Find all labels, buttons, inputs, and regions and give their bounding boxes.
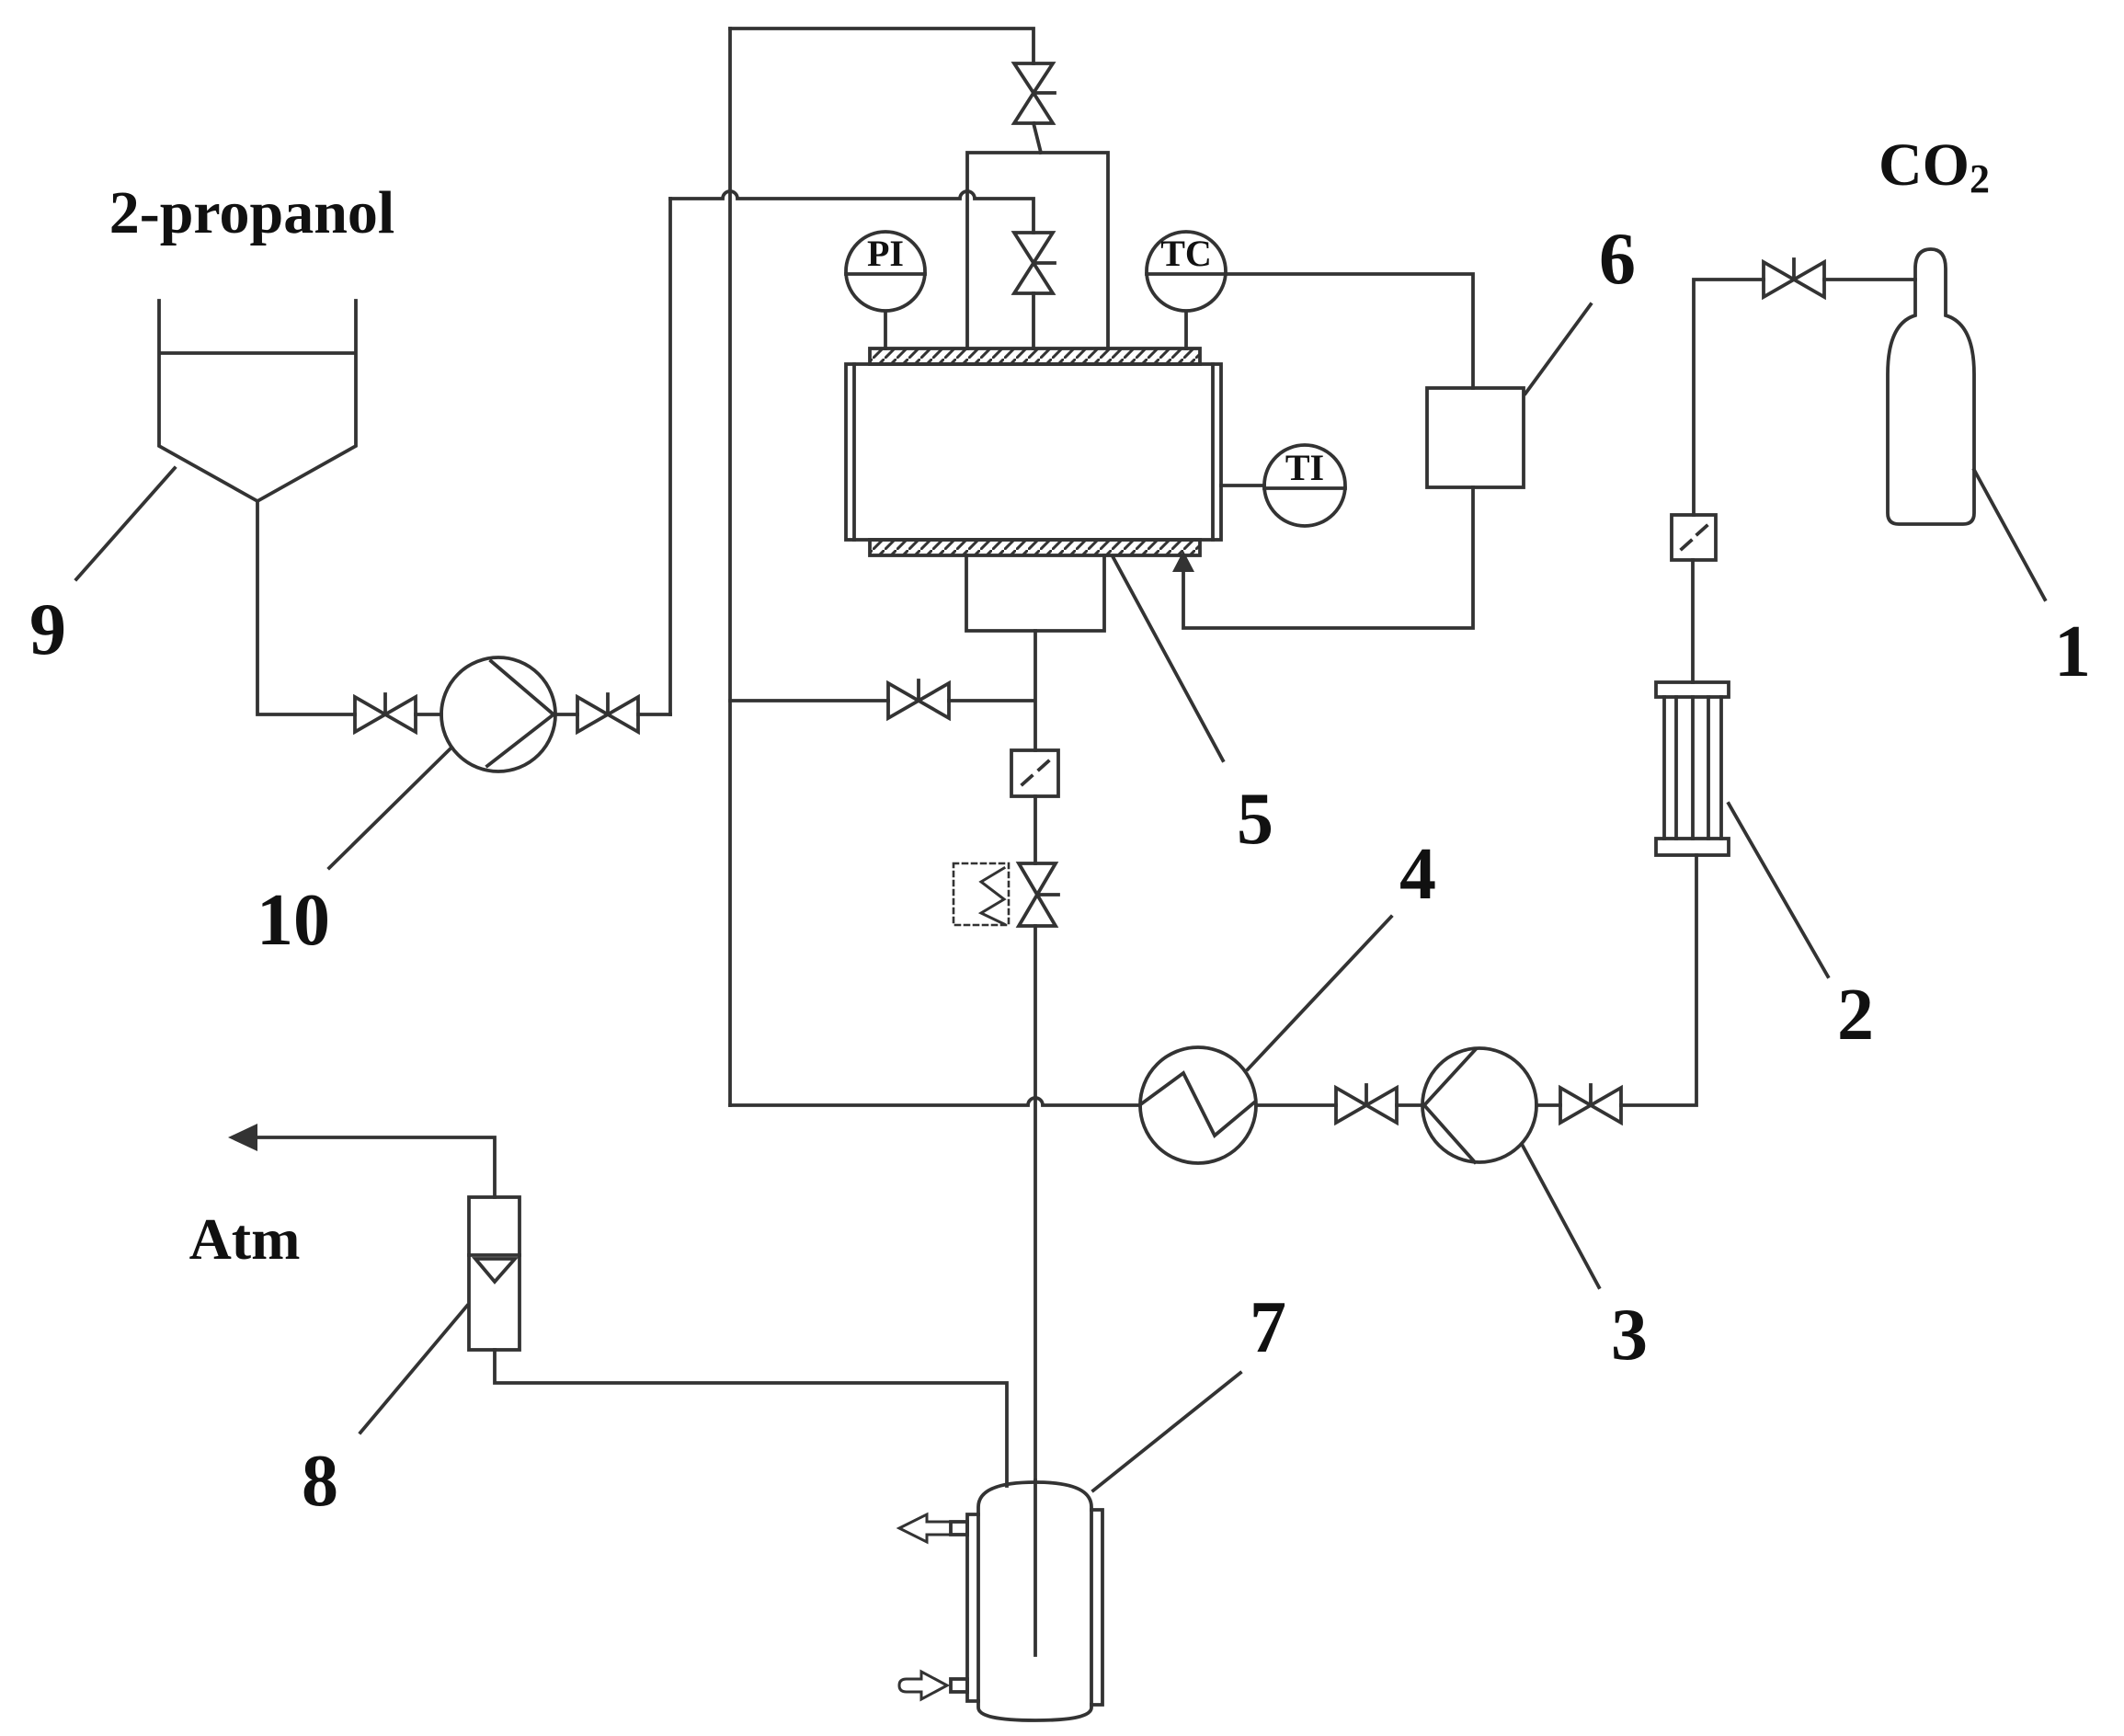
arrowhead into vessel bottom xyxy=(1172,551,1194,572)
heat exchanger 2 (cooler, tube bundle) xyxy=(1656,682,1729,855)
vessel 5 body xyxy=(846,364,1221,540)
vessel 7 dip tube xyxy=(1033,1480,1037,1655)
wire: vessel outlet down pipe xyxy=(1033,631,1037,1480)
svg-text:Atm: Atm xyxy=(189,1206,301,1272)
vessel 7 top-left nozzle stub xyxy=(951,1522,967,1535)
wire xyxy=(1536,1103,1560,1107)
wire: pump outlet segments xyxy=(416,713,670,716)
valve CO2 cylinder xyxy=(1764,259,1824,297)
leader line 10 xyxy=(329,748,451,868)
vessel 5 top plate (hatched) xyxy=(870,348,1200,364)
wire: left recycle vertical (x=794) xyxy=(728,29,732,1105)
leader line 8 xyxy=(360,1306,467,1433)
sight glass on CO2 feed xyxy=(1672,515,1716,560)
svg-text:CO2: CO2 xyxy=(1878,131,1990,201)
vessel 7 right jacket plate xyxy=(1091,1510,1102,1705)
wire: feed riser vertical (x=729) xyxy=(668,199,672,714)
leader line 5 xyxy=(1113,556,1223,760)
riser column above vessel xyxy=(967,153,1108,348)
vessel 7 outlet arrow (left) xyxy=(899,1514,951,1542)
wire: drain branch to vessel pipe xyxy=(949,699,1033,702)
leader line 7 xyxy=(1093,1373,1240,1490)
valve after pump 3 xyxy=(1560,1085,1621,1123)
heated BPR valve (vertical) with dashed heater box xyxy=(954,863,1058,926)
pump 3 (CO2 pump) xyxy=(1422,1048,1536,1162)
leader line 1 xyxy=(1974,470,2045,600)
valve top vent (vertical) xyxy=(1014,63,1055,153)
wire: TC signal to heater box 6 xyxy=(1226,274,1473,388)
valve before pump 3 xyxy=(1336,1085,1397,1123)
vessel 7 inlet arrow (right-pointing) xyxy=(899,1672,947,1699)
wire: top vent line xyxy=(730,29,1033,63)
valve drain branch xyxy=(888,680,949,718)
leader line 9 xyxy=(76,468,175,579)
valve pump suction xyxy=(355,694,416,732)
pump 10 xyxy=(441,657,555,771)
svg-text:2-propanol: 2-propanol xyxy=(109,179,395,246)
svg-text:6: 6 xyxy=(1599,219,1636,300)
leader line 4 xyxy=(1248,917,1391,1069)
box 6 (temperature controller/heater unit) xyxy=(1427,388,1524,487)
leader line 2 xyxy=(1729,804,1828,976)
sight glass on vessel outlet xyxy=(1011,750,1058,796)
flow meter 8 (rotameter) xyxy=(469,1197,520,1350)
wire: main CO2 line y=1202 xyxy=(730,1098,1140,1105)
tank 9 (2-propanol reservoir) xyxy=(159,301,356,501)
vessel 5 bottom plate (hatched) xyxy=(870,540,1200,555)
svg-text:5: 5 xyxy=(1237,779,1273,860)
svg-text:PI: PI xyxy=(867,233,904,274)
wire: 2-propanol feed horizontal y=216 with hops xyxy=(670,191,1033,233)
leader line 6 xyxy=(1525,304,1591,394)
svg-text:TI: TI xyxy=(1285,447,1324,488)
wire: up to CO2 valve line xyxy=(1694,280,1764,515)
wire: flow meter inlet from vessel 7 xyxy=(495,1350,1007,1486)
vessel 7 left jacket plate xyxy=(967,1514,978,1701)
vessel 5 bottom neck xyxy=(966,555,1104,631)
wire: HX4 to valve xyxy=(1256,1103,1336,1107)
wire: drain branch y=762 xyxy=(730,699,888,702)
CO2 cylinder 1 xyxy=(1888,249,1974,524)
wire xyxy=(1397,1103,1422,1107)
wire: tank outlet down and to pump xyxy=(257,501,355,714)
wire: to cooler HX2 xyxy=(1621,855,1696,1105)
vessel 7 bottom-left nozzle stub xyxy=(951,1679,967,1692)
svg-text:2: 2 xyxy=(1837,975,1874,1056)
svg-text:TC: TC xyxy=(1160,233,1212,274)
wire: HX2 up to sight glass xyxy=(1691,560,1695,682)
valve mid (vertical) on feed into vessel xyxy=(1014,233,1055,348)
leader line 3 xyxy=(1523,1146,1599,1287)
gauge TI xyxy=(1221,445,1345,526)
wire: box 6 to vessel bottom with arrow xyxy=(1183,487,1473,628)
svg-text:7: 7 xyxy=(1250,1287,1286,1368)
svg-text:10: 10 xyxy=(257,880,330,961)
gauge TC xyxy=(1147,232,1226,348)
wire: valve to cylinder xyxy=(1824,278,1915,281)
wire: vent to atmosphere with arrow xyxy=(256,1137,495,1197)
svg-text:4: 4 xyxy=(1399,834,1436,915)
valve pump discharge xyxy=(577,694,638,732)
heat exchanger 4 (heater) xyxy=(1140,1047,1256,1163)
svg-text:3: 3 xyxy=(1611,1295,1648,1376)
svg-text:8: 8 xyxy=(302,1441,338,1522)
svg-text:1: 1 xyxy=(2054,611,2091,692)
arrowhead to Atm xyxy=(228,1124,257,1151)
vessel 7 (separator) body xyxy=(978,1482,1091,1720)
svg-text:9: 9 xyxy=(29,589,66,670)
gauge PI xyxy=(846,232,925,348)
